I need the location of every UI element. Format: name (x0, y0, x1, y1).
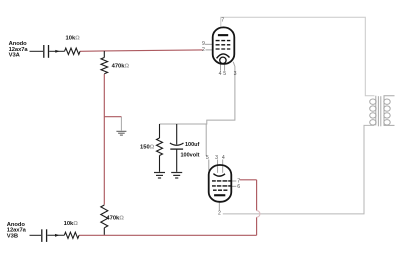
svg-text:470kΩ: 470kΩ (106, 215, 124, 221)
svg-text:7: 7 (221, 18, 224, 24)
svg-text:2: 2 (202, 47, 205, 53)
svg-text:10kΩ: 10kΩ (66, 35, 81, 41)
svg-text:150Ω: 150Ω (140, 145, 155, 151)
svg-text:10kΩ: 10kΩ (64, 221, 79, 227)
svg-text:V3A: V3A (9, 53, 21, 59)
svg-text:4: 4 (219, 71, 222, 77)
svg-text:4: 4 (222, 155, 225, 161)
svg-text:3: 3 (215, 155, 218, 161)
svg-text:V3B: V3B (7, 233, 18, 239)
svg-text:100volt: 100volt (181, 153, 200, 159)
svg-text:2: 2 (218, 211, 221, 217)
svg-text:5: 5 (206, 155, 209, 161)
svg-text:470kΩ: 470kΩ (112, 63, 130, 69)
svg-text:6: 6 (237, 184, 240, 190)
svg-text:3: 3 (234, 71, 237, 77)
svg-text:5: 5 (223, 71, 226, 77)
svg-text:100uf: 100uf (185, 142, 200, 148)
